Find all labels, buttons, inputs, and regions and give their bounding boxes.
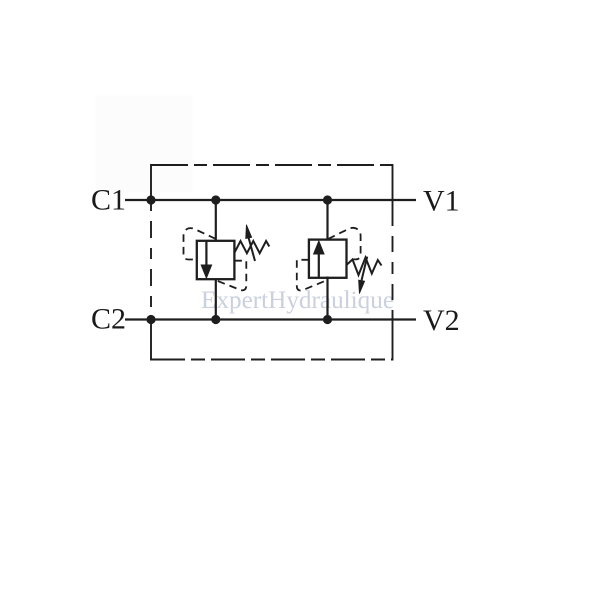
junction node C1-left: [146, 195, 155, 204]
relief valve RV2 flow arrow: [314, 241, 324, 277]
junction node C2-left: [146, 315, 155, 324]
faint watermark square background: [96, 96, 192, 192]
svg-text:V1: V1: [423, 185, 460, 218]
svg-text:V2: V2: [423, 304, 460, 337]
relief valve RV2 spring: [346, 258, 381, 276]
relief valve RV1 drain line dashed: [216, 261, 246, 291]
relief valve RV1 spring: [234, 241, 269, 253]
svg-text:C2: C2: [91, 303, 126, 336]
wire riser below valve RV2: [326, 277, 328, 320]
relief valve RV2 adjustment arrow: [359, 257, 368, 294]
wire C2 line: [125, 318, 416, 320]
relief valve RV1 body square: [197, 241, 235, 279]
relief valve RV1 pilot line dashed: [184, 228, 216, 259]
junction node RV1 top: [211, 195, 220, 204]
svg-text:C1: C1: [91, 184, 126, 217]
enclosure top edge: [151, 164, 393, 166]
enclosure right edge dashed middle segment: [392, 214, 394, 320]
enclosure right edge solid top segment: [392, 164, 394, 214]
enclosure right edge solid bottom segment: [392, 320, 394, 361]
wire riser above valve RV2: [326, 200, 328, 240]
enclosure bottom edge: [151, 359, 393, 361]
junction node RV1 bottom: [211, 315, 220, 324]
junction node RV2 bottom: [323, 315, 332, 324]
junction node RV2 top: [323, 195, 332, 204]
wire riser above valve RV1: [215, 200, 217, 242]
enclosure left edge solid bottom segment: [150, 320, 152, 361]
relief valve RV2 pilot line dashed: [328, 228, 361, 260]
relief valve RV2 drain line dashed: [297, 260, 327, 291]
wire riser below valve RV1: [215, 279, 217, 320]
relief valve RV1 flow arrow: [201, 242, 211, 279]
enclosure left edge dashed middle segment: [150, 200, 152, 320]
enclosure left edge solid top segment: [150, 164, 152, 200]
relief valve RV2 body square: [309, 240, 347, 278]
svg-text:ExpertHydraulique: ExpertHydraulique: [201, 287, 394, 314]
wire C1 line: [125, 199, 416, 201]
relief valve RV1 adjustment arrow: [246, 225, 255, 261]
